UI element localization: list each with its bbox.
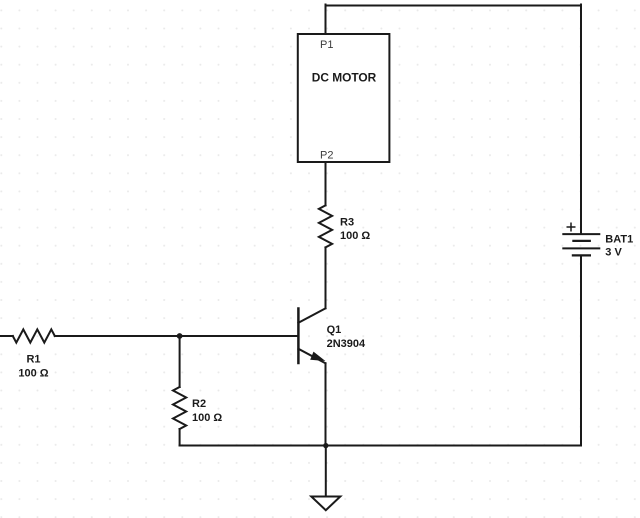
battery BAT1: [562, 223, 600, 256]
wire top rail from motor P1 to battery +: [326, 5, 582, 7]
svg-text:2N3904: 2N3904: [327, 338, 366, 350]
wire R1 to base: [55, 335, 299, 337]
wire R2 to bottom rail: [179, 429, 181, 446]
resistor R3: [319, 205, 332, 247]
wire emitter lead down: [325, 363, 327, 445]
wire battery bottom lead: [580, 256, 582, 446]
wire motor P1 lead: [325, 5, 327, 35]
resistor R2: [173, 387, 186, 429]
svg-text:100 Ω: 100 Ω: [192, 412, 222, 424]
svg-text:R1: R1: [26, 353, 40, 365]
wire bottom rail: [180, 445, 581, 447]
wire battery top lead: [580, 5, 582, 235]
wire ground lead: [325, 446, 327, 497]
svg-text:P2: P2: [320, 149, 333, 161]
wire junction to R2: [179, 336, 181, 387]
resistor R1: [13, 329, 55, 342]
svg-text:BAT1: BAT1: [605, 234, 633, 246]
svg-text:P1: P1: [320, 39, 333, 51]
ground: [311, 497, 340, 511]
svg-text:100 Ω: 100 Ω: [18, 367, 48, 379]
node junction R1/R2/base: [177, 333, 183, 339]
wire R3 to collector: [325, 247, 327, 308]
svg-text:Q1: Q1: [327, 324, 342, 336]
DC motor M1 box: [298, 34, 390, 162]
transistor Q1: [298, 308, 325, 363]
wire motor P2 lead to R3: [325, 162, 327, 205]
svg-text:DC MOTOR: DC MOTOR: [312, 71, 377, 85]
node junction emitter/ground/rail: [323, 443, 328, 448]
svg-text:3 V: 3 V: [605, 247, 622, 259]
wire left input stub: [0, 335, 13, 337]
svg-text:R3: R3: [340, 216, 354, 228]
svg-text:R2: R2: [192, 398, 206, 410]
svg-text:100 Ω: 100 Ω: [340, 230, 370, 242]
